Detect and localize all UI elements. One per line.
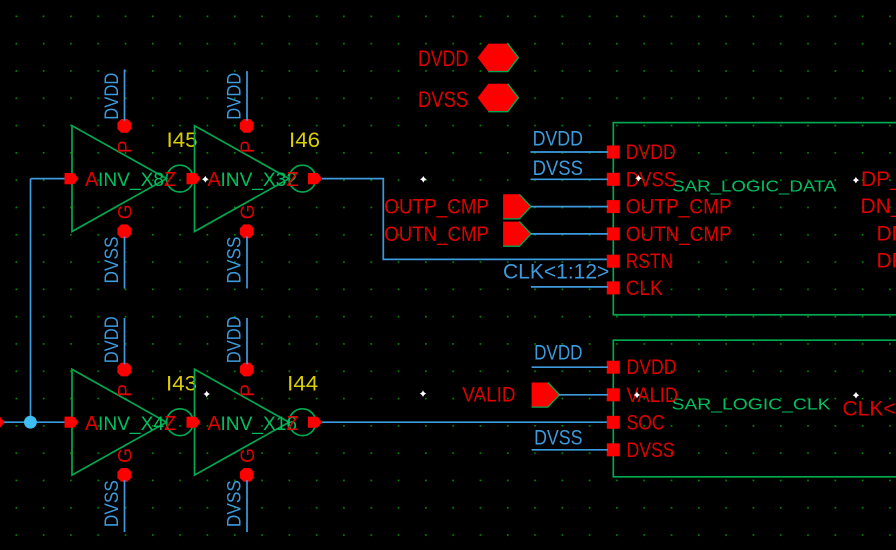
wire stub CLK box1 (531, 286, 608, 288)
origin marker 5 (203, 391, 210, 398)
inverter I46 output bubble (289, 165, 316, 192)
svg-text:Z: Z (164, 169, 176, 191)
svg-text:VALID: VALID (462, 384, 515, 407)
supply hexagon DVDD (478, 44, 519, 72)
svg-text:SAR_LOGIC_CLK: SAR_LOGIC_CLK (672, 397, 831, 414)
svg-text:VALID: VALID (627, 384, 679, 407)
box1 pin square DVDD (607, 146, 620, 159)
wire stub DVDD box1 (531, 151, 609, 153)
svg-text:I46: I46 (289, 129, 320, 152)
svg-text:G: G (238, 448, 259, 463)
svg-text:DN_OUT: DN_OUT (861, 195, 896, 218)
clipped input pin at left edge (0, 417, 5, 428)
box1 pin square RSTN (607, 255, 620, 268)
svg-text:DVSS: DVSS (102, 480, 123, 527)
origin marker 8 (853, 392, 860, 399)
inverter I46 DVSS supply wire (246, 237, 248, 289)
svg-text:G: G (116, 205, 137, 220)
box1 pin square OUTP_CMP (607, 200, 620, 213)
svg-text:DP_OUT: DP_OUT (861, 168, 896, 191)
inverter I46 triangle (195, 126, 290, 232)
wire stub DVSS box1 (531, 178, 609, 180)
inverter I45 triangle (72, 126, 167, 232)
svg-text:DN<1>: DN<1> (877, 222, 896, 245)
svg-text:DVSS: DVSS (534, 427, 582, 450)
svg-text:DVSS: DVSS (225, 480, 246, 527)
box1 pin square OUTN_CMP (607, 227, 620, 240)
inverter I45 DVDD supply wire (124, 70, 126, 121)
svg-text:DVDD: DVDD (626, 141, 676, 164)
inverter I44 DVDD pin octagon (240, 363, 254, 377)
svg-text:I45: I45 (167, 129, 198, 152)
svg-text:DVSS: DVSS (627, 439, 675, 462)
inverter I43 output bubble (167, 409, 194, 436)
wire row1 input (31, 178, 67, 180)
svg-text:DVDD: DVDD (225, 73, 246, 120)
svg-text:A: A (208, 413, 222, 435)
svg-text:OUTN_CMP: OUTN_CMP (384, 223, 489, 246)
box2 pin square DVSS (607, 443, 620, 456)
svg-text:CLK<1:12>: CLK<1:12> (503, 261, 609, 284)
arrow I45 out / I46 in (187, 173, 201, 184)
inverter I43 DVDD supply wire (124, 318, 126, 364)
wire I46 output to RSTN (322, 179, 608, 260)
inverter I44 output bubble (289, 409, 316, 436)
svg-text:G: G (116, 448, 137, 463)
svg-text:DVSS: DVSS (102, 237, 123, 284)
svg-text:Z: Z (287, 169, 299, 191)
instance box SAR_LOGIC_DATA (613, 123, 896, 315)
inverter I44 DVSS supply wire (246, 480, 248, 532)
wire vertical riser from junction to row1 (30, 179, 32, 423)
inverter I43 DVDD pin octagon (117, 363, 131, 377)
box1 pin square DVSS (607, 173, 620, 186)
svg-text:CLK<1:12>: CLK<1:12> (843, 397, 896, 420)
inverter I45 DVDD pin octagon (117, 119, 131, 133)
origin marker 1 (202, 176, 209, 183)
svg-text:INV_X8: INV_X8 (98, 170, 164, 191)
origin marker 2 (420, 176, 427, 183)
wire OUTN_CMP to box (531, 233, 608, 235)
svg-text:DP<1>: DP<1> (877, 250, 896, 273)
inverter I45 DVSS pin octagon (117, 224, 131, 238)
svg-text:Z: Z (164, 413, 176, 435)
svg-text:I43: I43 (166, 373, 197, 396)
svg-text:DVDD: DVDD (225, 316, 246, 363)
svg-text:OUTN_CMP: OUTN_CMP (626, 223, 732, 246)
svg-text:I44: I44 (287, 373, 318, 396)
pin pentagon OUTP_CMP (503, 194, 531, 219)
wire input net left to row2 (0, 421, 66, 423)
wire VALID to box (559, 394, 608, 396)
junction dot (24, 416, 37, 429)
wire I44 output to SOC (322, 421, 608, 423)
box2 pin square DVDD (607, 361, 620, 374)
svg-text:A: A (85, 169, 99, 191)
inverter I44 DVDD supply wire (246, 318, 248, 364)
svg-text:DVSS: DVSS (418, 87, 468, 112)
inverter I46 DVDD supply wire (246, 71, 248, 121)
inverter I45 output bubble (167, 165, 194, 192)
svg-text:OUTP_CMP: OUTP_CMP (384, 196, 489, 219)
svg-text:DVDD: DVDD (102, 316, 123, 363)
instance box SAR_LOGIC_CLK (613, 340, 896, 477)
svg-text:A: A (85, 413, 99, 435)
inverter I43 DVSS supply wire (124, 480, 126, 532)
origin marker 4 (853, 177, 860, 184)
svg-text:SOC: SOC (627, 411, 665, 434)
supply hexagon DVSS (478, 84, 519, 112)
svg-text:CLK: CLK (626, 277, 663, 300)
input arrow row1 inverter I45 (65, 173, 79, 184)
svg-text:INV_X4: INV_X4 (98, 414, 164, 435)
svg-text:P: P (238, 384, 259, 397)
svg-text:DVDD: DVDD (533, 128, 583, 151)
box2 pin square SOC (607, 416, 620, 429)
pin pentagon OUTN_CMP (503, 222, 531, 247)
output arrow I44 (308, 417, 322, 428)
svg-text:OUTP_CMP: OUTP_CMP (626, 196, 732, 219)
svg-text:DVDD: DVDD (418, 46, 468, 71)
svg-text:DVDD: DVDD (102, 73, 123, 120)
origin marker 3 (635, 175, 642, 182)
inverter I43 DVSS pin octagon (117, 468, 131, 482)
svg-text:DVSS: DVSS (533, 157, 583, 180)
svg-text:SAR_LOGIC_DATA: SAR_LOGIC_DATA (672, 178, 836, 195)
wire stub DVSS box2 (532, 449, 608, 451)
svg-text:Z: Z (287, 413, 299, 435)
origin marker 6 (420, 390, 427, 397)
svg-text:P: P (116, 384, 137, 397)
inverter I45 DVSS supply wire (124, 237, 126, 289)
svg-text:DVDD: DVDD (627, 356, 677, 379)
wire OUTP_CMP to box (531, 206, 608, 208)
svg-text:RSTN: RSTN (626, 250, 673, 273)
wire stub DVDD box2 (532, 366, 608, 368)
arrow I43 out / I44 in (187, 417, 201, 428)
svg-text:DVDD: DVDD (534, 342, 582, 365)
inverter I44 DVSS pin octagon (240, 468, 254, 482)
svg-text:A: A (208, 169, 222, 191)
svg-text:DVSS: DVSS (225, 237, 246, 284)
inverter I43 triangle (72, 369, 167, 475)
svg-text:P: P (116, 140, 137, 153)
inverter I46 DVDD pin octagon (240, 119, 254, 133)
inverter I44 triangle (195, 369, 290, 475)
svg-text:G: G (238, 205, 259, 220)
input arrow row2 inverter I43 (65, 417, 79, 428)
svg-text:P: P (238, 140, 259, 153)
output arrow I46 (308, 173, 322, 184)
box1 pin square CLK (607, 281, 620, 294)
origin marker 7 (634, 392, 641, 399)
box2 pin square VALID (607, 388, 620, 401)
svg-text:DVSS: DVSS (626, 168, 677, 191)
inverter I46 DVSS pin octagon (240, 224, 254, 238)
pin pentagon VALID (532, 383, 560, 408)
